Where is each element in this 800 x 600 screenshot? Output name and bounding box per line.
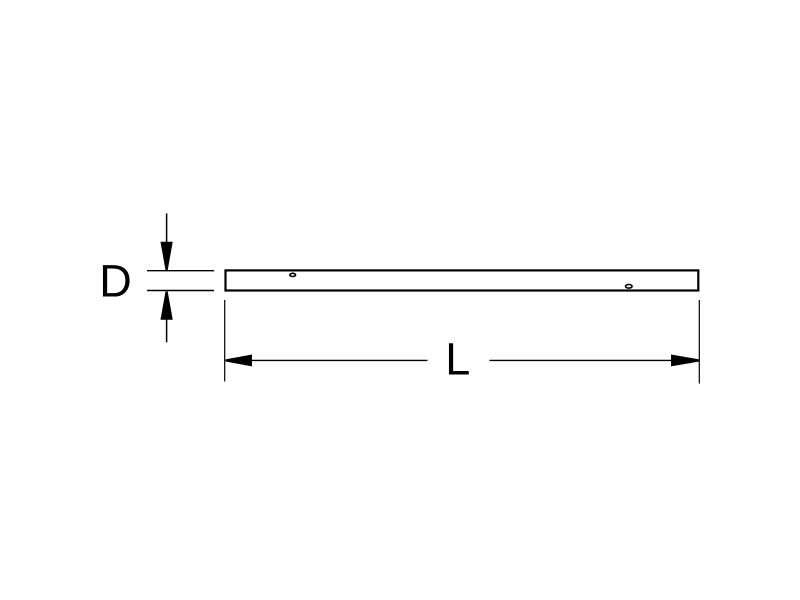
L dimension line right segment: [490, 359, 699, 361]
D arrow upper (pointing down): [161, 214, 172, 270]
rod body (long bar): [226, 270, 699, 290]
L extension line left: [224, 300, 226, 382]
D extension line top: [147, 270, 214, 272]
pin hole left: [290, 273, 296, 276]
L arrowhead right: [672, 355, 699, 366]
svg-text:L: L: [445, 334, 470, 385]
svg-text:D: D: [99, 255, 132, 306]
L extension line right: [698, 300, 700, 384]
D arrow lower (pointing up): [161, 292, 172, 342]
L dimension line left segment: [226, 359, 428, 361]
pin hole right: [626, 285, 633, 289]
L arrowhead left: [226, 355, 252, 366]
D extension line bottom: [147, 290, 214, 292]
